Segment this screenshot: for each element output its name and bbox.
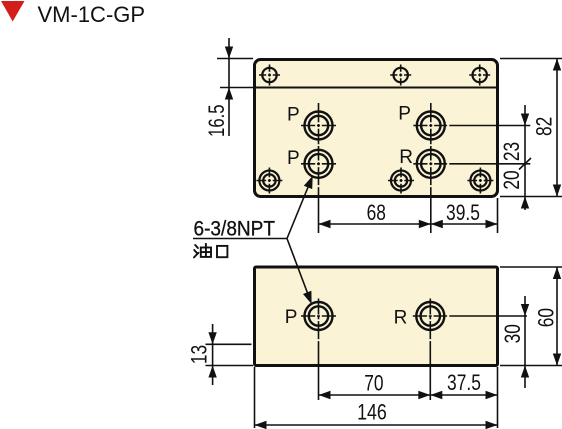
svg-text:68: 68 — [367, 200, 386, 225]
svg-text:R: R — [394, 308, 408, 329]
svg-text:60: 60 — [533, 308, 558, 327]
svg-text:13: 13 — [187, 345, 212, 364]
svg-text:82: 82 — [531, 117, 556, 136]
svg-text:P: P — [287, 105, 300, 126]
svg-text:39.5: 39.5 — [446, 200, 480, 225]
svg-text:146: 146 — [357, 400, 387, 425]
svg-text:6-3/8NPT: 6-3/8NPT — [194, 217, 276, 240]
svg-text:P: P — [285, 307, 298, 328]
svg-text:37.5: 37.5 — [447, 370, 481, 395]
svg-text:16.5: 16.5 — [204, 104, 229, 137]
svg-text:70: 70 — [364, 371, 383, 396]
svg-text:20: 20 — [499, 170, 524, 189]
svg-text:23: 23 — [499, 142, 524, 161]
svg-text:P: P — [398, 104, 411, 125]
svg-text:VM-1C-GP: VM-1C-GP — [38, 2, 146, 27]
svg-text:R: R — [399, 147, 413, 168]
svg-text:30: 30 — [500, 324, 525, 343]
svg-text:P: P — [287, 148, 300, 169]
